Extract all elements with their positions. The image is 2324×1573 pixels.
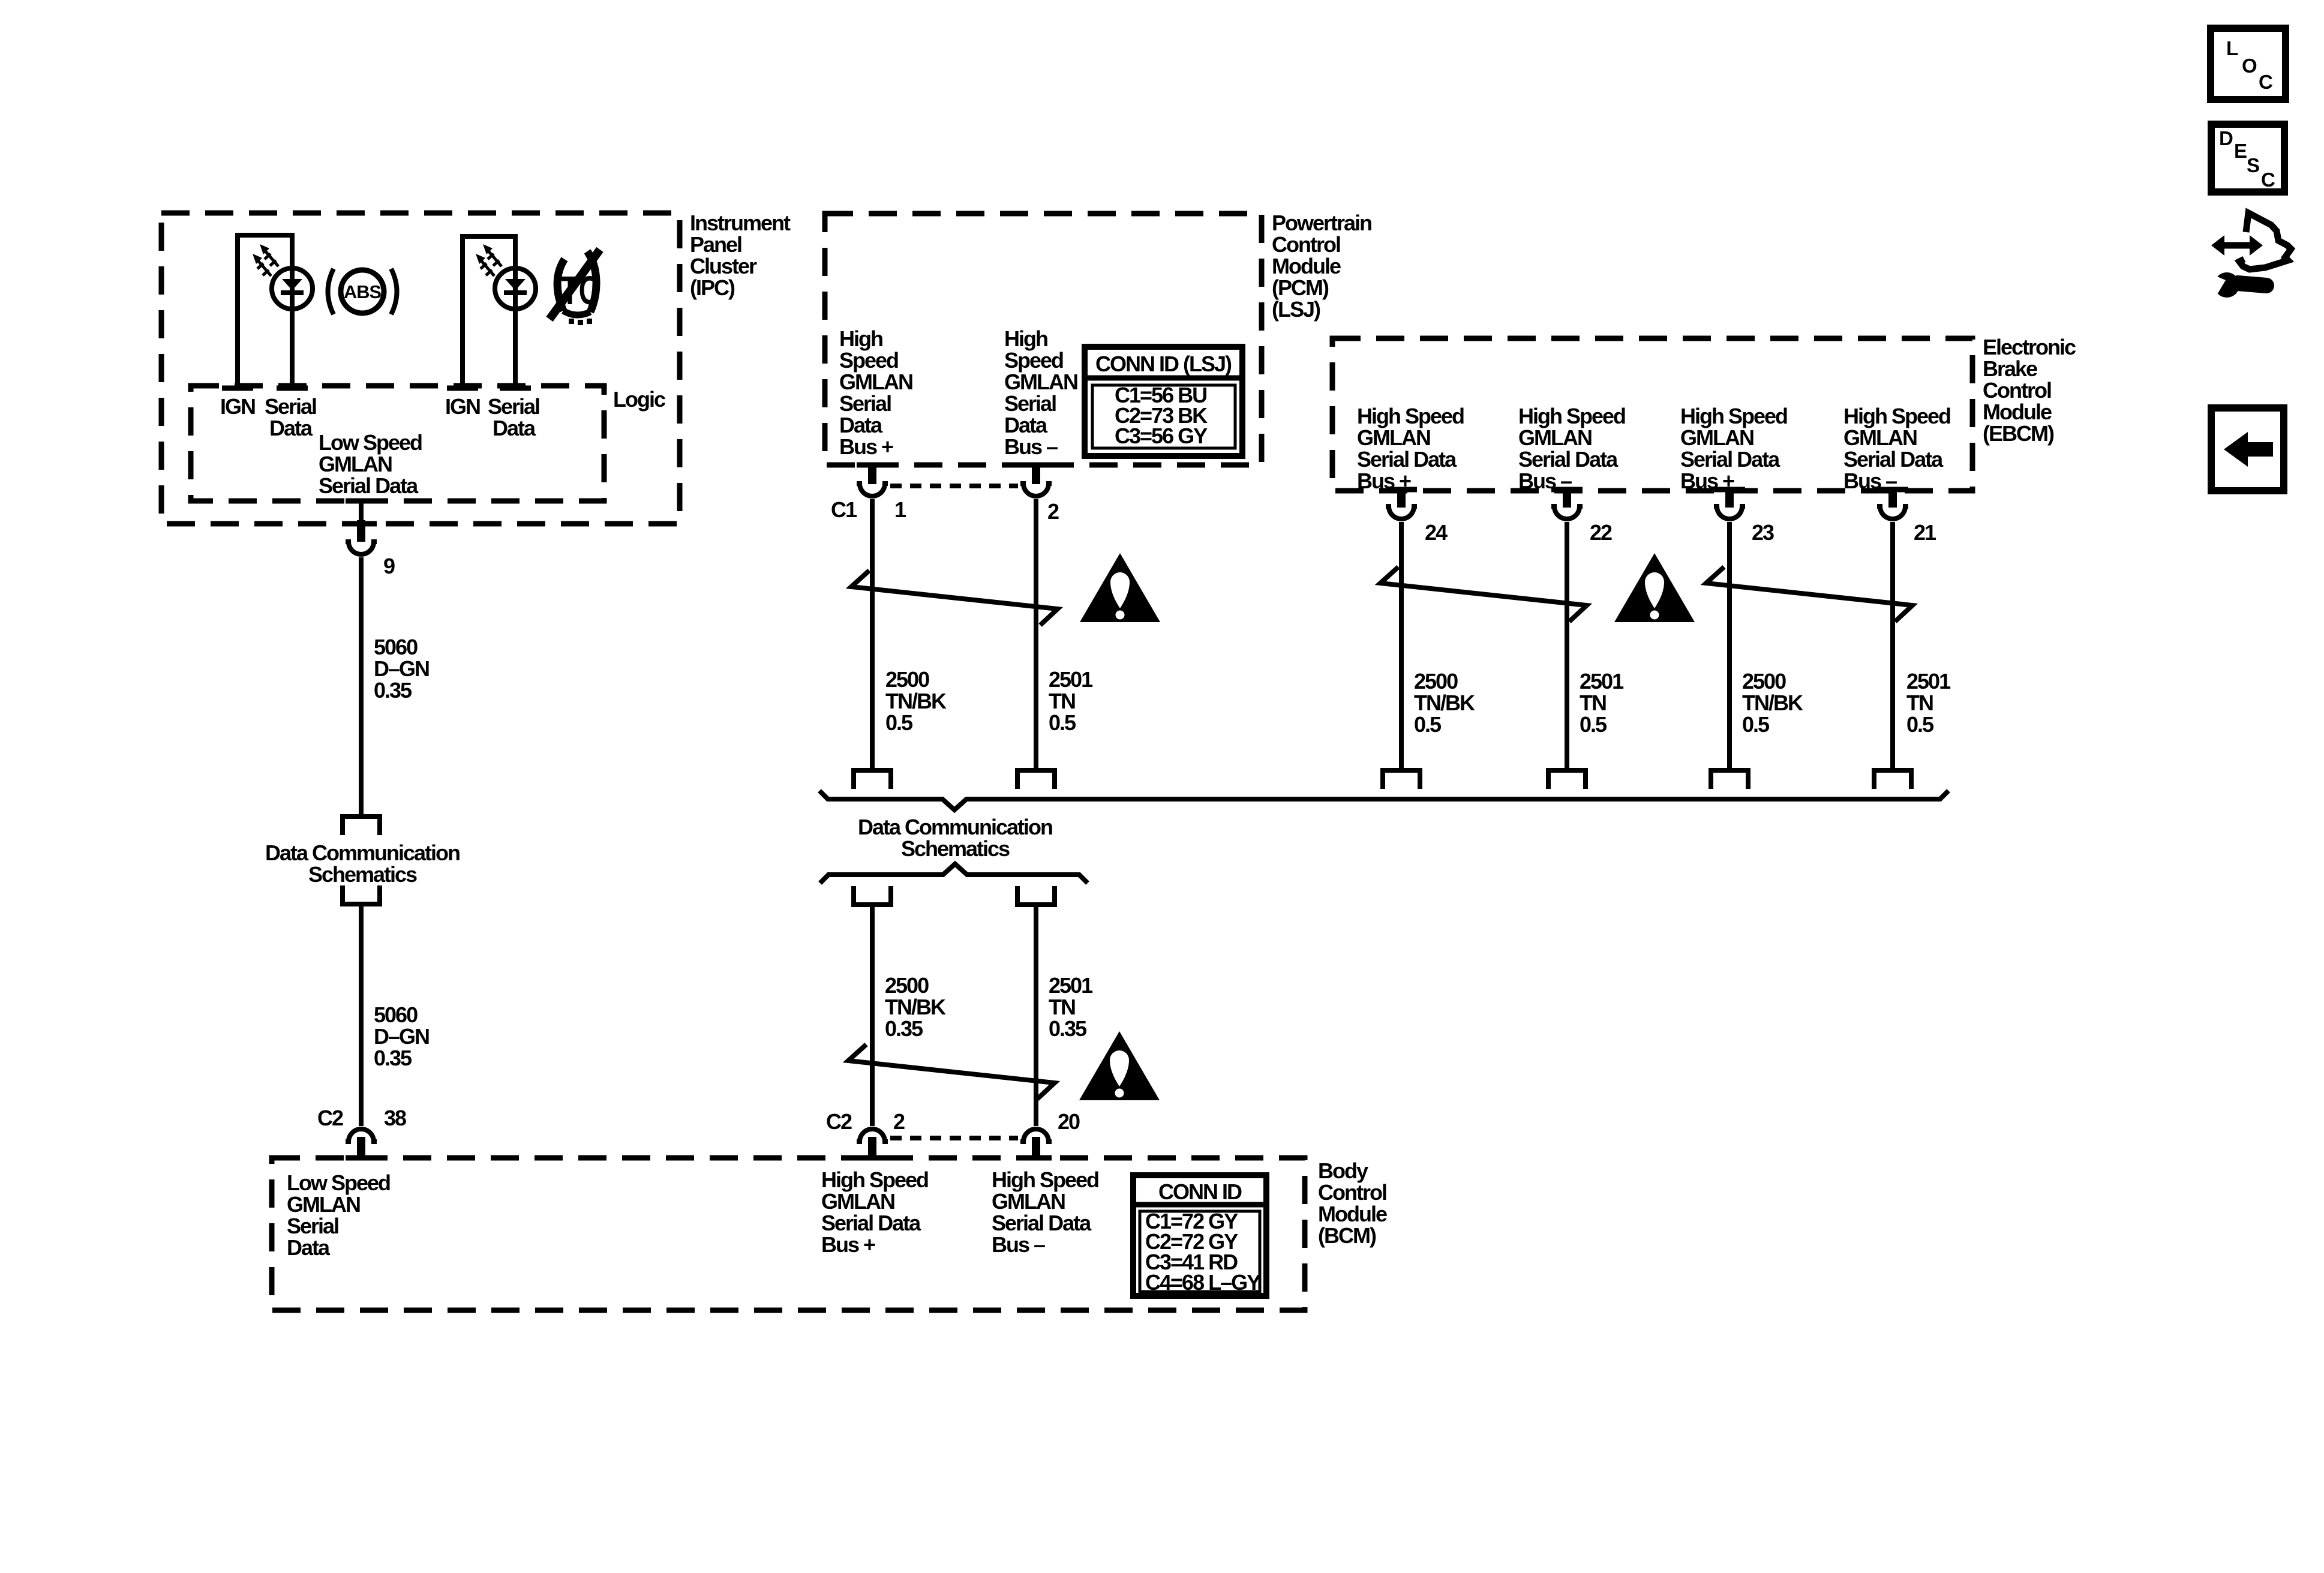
svg-text:5060: 5060 bbox=[374, 635, 418, 659]
svg-text:C: C bbox=[2259, 71, 2273, 93]
inline terminal lower (left chain) bbox=[343, 885, 380, 904]
svg-text:D–GN: D–GN bbox=[374, 1024, 429, 1049]
svg-text:CONN ID (LSJ): CONN ID (LSJ) bbox=[1095, 352, 1232, 376]
svg-text:Control: Control bbox=[1983, 378, 2051, 403]
svg-text:Brake: Brake bbox=[1983, 356, 2037, 381]
svg-text:Panel: Panel bbox=[690, 232, 741, 257]
label 2501 TN 0.5 (EBCM A) bbox=[1580, 669, 1624, 737]
svg-text:Powertrain: Powertrain bbox=[1272, 211, 1371, 235]
svg-text:Data Communication: Data Communication bbox=[265, 840, 460, 865]
svg-text:0.5: 0.5 bbox=[1049, 710, 1076, 735]
svg-text:0.35: 0.35 bbox=[374, 678, 412, 703]
icon LOC box bbox=[2211, 28, 2286, 100]
svg-text:High: High bbox=[839, 326, 882, 351]
svg-text:IGN: IGN bbox=[220, 394, 255, 419]
svg-text:Serial Data: Serial Data bbox=[1843, 447, 1944, 472]
label pin 23 bbox=[1752, 520, 1774, 545]
svg-text:38: 38 bbox=[384, 1106, 406, 1130]
svg-text:2500: 2500 bbox=[1742, 669, 1786, 694]
svg-text:S: S bbox=[2247, 154, 2260, 176]
svg-text:Serial Data: Serial Data bbox=[1518, 447, 1619, 472]
svg-text:Cluster: Cluster bbox=[690, 254, 757, 278]
svg-text:GMLAN: GMLAN bbox=[1357, 425, 1430, 450]
svg-text:Control: Control bbox=[1318, 1180, 1386, 1205]
svg-text:Serial: Serial bbox=[1004, 391, 1056, 416]
svg-text:Data: Data bbox=[493, 416, 536, 440]
label 5060 D-GN 0.35 upper bbox=[374, 635, 429, 703]
bus terminal (EBCM wire 23) bbox=[1711, 770, 1748, 789]
svg-text:High Speed: High Speed bbox=[1843, 404, 1950, 428]
svg-text:High Speed: High Speed bbox=[1518, 404, 1625, 428]
svg-text:TN: TN bbox=[1580, 691, 1606, 715]
twisted pair symbol (EBCM pair A) bbox=[1380, 567, 1587, 622]
wire splice to BCM C2-38 (5060 D-GN lower) bbox=[359, 904, 364, 1126]
BCM pin 20 connector dome bbox=[1020, 1129, 1052, 1142]
label High Speed GMLAN Serial Data Bus - (BCM) bbox=[992, 1167, 1098, 1257]
svg-text:0.35: 0.35 bbox=[1049, 1016, 1087, 1041]
svg-text:0.5: 0.5 bbox=[1906, 712, 1934, 737]
EBCM pin 23 connector cup bbox=[1714, 506, 1745, 519]
svg-text:High Speed: High Speed bbox=[821, 1167, 928, 1192]
bus terminal (PCM wire 1) bbox=[854, 770, 891, 789]
svg-text:GMLAN: GMLAN bbox=[1004, 370, 1077, 394]
bus terminal (EBCM wire 22) bbox=[1548, 770, 1586, 789]
label pin 1 bbox=[894, 497, 906, 522]
label High Speed GMLAN Serial Data Bus - (EBCM 2) bbox=[1518, 404, 1625, 493]
svg-text:(EBCM): (EBCM) bbox=[1983, 421, 2054, 446]
PCM pin C1-1 stub bbox=[868, 463, 876, 484]
svg-text:High Speed: High Speed bbox=[1680, 404, 1787, 428]
svg-text:(PCM): (PCM) bbox=[1272, 275, 1329, 300]
EBCM pin 21 stub bbox=[1888, 487, 1897, 508]
wire EBCM pin22 to bus (2501 TN 0.5) bbox=[1565, 522, 1569, 769]
module BCM box (Body Control Module) bbox=[272, 1158, 1305, 1310]
ABS indicator icon bbox=[328, 269, 397, 314]
label High Speed GMLAN Serial Data Bus + (EBCM 1) bbox=[1357, 404, 1464, 493]
svg-text:TN: TN bbox=[1049, 689, 1075, 713]
svg-text:High Speed: High Speed bbox=[1357, 404, 1464, 428]
wire IPC pin9 to splice (5060 D-GN upper) bbox=[359, 557, 364, 814]
svg-text:Data: Data bbox=[839, 413, 883, 437]
indicator lamp L1 ABS wire loop bbox=[238, 235, 292, 387]
PCM pin C1-1 connector cup bbox=[857, 484, 888, 496]
label C2 (BCM left) bbox=[317, 1106, 343, 1130]
svg-text:Module: Module bbox=[1983, 400, 2052, 424]
svg-text:5060: 5060 bbox=[374, 1002, 418, 1027]
long brace data bus bbox=[819, 791, 1948, 810]
label pin 2 bbox=[1047, 499, 1059, 524]
svg-text:C2: C2 bbox=[317, 1106, 343, 1130]
EBCM pin 22 connector cup bbox=[1551, 506, 1583, 519]
svg-text:2500: 2500 bbox=[1414, 669, 1458, 694]
svg-text:Low Speed: Low Speed bbox=[319, 430, 422, 455]
svg-text:TN/BK: TN/BK bbox=[885, 995, 946, 1019]
BCM pin 38 stub bbox=[357, 1137, 365, 1160]
LED symbol lamp L2 bbox=[495, 268, 536, 309]
TC off indicator icon bbox=[550, 250, 600, 325]
label 2501 TN 0.5 (EBCM B) bbox=[1906, 669, 1951, 737]
svg-text:(BCM): (BCM) bbox=[1318, 1223, 1376, 1248]
svg-text:Serial Data: Serial Data bbox=[1680, 447, 1780, 472]
svg-text:2500: 2500 bbox=[885, 667, 929, 692]
svg-text:2500: 2500 bbox=[885, 973, 929, 998]
svg-text:TN/BK: TN/BK bbox=[885, 689, 947, 713]
svg-text:High: High bbox=[1004, 326, 1047, 351]
svg-text:IGN: IGN bbox=[445, 394, 480, 419]
wire EBCM pin24 to bus (2500 TN/BK 0.5) bbox=[1399, 522, 1404, 769]
svg-text:Body: Body bbox=[1318, 1158, 1368, 1183]
label 2501 TN 0.35 bbox=[1049, 973, 1093, 1041]
lower terminal (BCM wire 1) bbox=[854, 886, 891, 905]
svg-text:GMLAN: GMLAN bbox=[839, 370, 912, 394]
label High Speed GMLAN Serial Data Bus - (PCM) bbox=[1004, 326, 1077, 459]
label IPC module name bbox=[690, 211, 791, 300]
CONN ID table (BCM) bbox=[1133, 1175, 1266, 1296]
svg-text:Module: Module bbox=[1318, 1202, 1387, 1226]
label pin 21 bbox=[1914, 520, 1936, 545]
svg-text:1: 1 bbox=[894, 497, 906, 522]
label High Speed GMLAN Serial Data Bus + (EBCM 3) bbox=[1680, 404, 1787, 493]
svg-text:Control: Control bbox=[1272, 232, 1340, 257]
BCM pin 2 stub bbox=[868, 1137, 876, 1160]
svg-text:Data: Data bbox=[287, 1235, 331, 1260]
wire PCM pin2 to bus (2501 TN 0.5) bbox=[1034, 499, 1038, 769]
BCM pin 20 stub bbox=[1032, 1137, 1040, 1160]
svg-text:Speed: Speed bbox=[1004, 348, 1063, 373]
inline terminal upper (left chain) bbox=[343, 816, 380, 835]
label IGN / Serial Data (lamp L2) bbox=[445, 394, 539, 440]
EBCM pin 21 connector cup bbox=[1877, 506, 1908, 519]
label 5060 D-GN 0.35 lower bbox=[374, 1002, 429, 1070]
module EBCM box (Electronic Brake Control Module) bbox=[1332, 338, 1972, 491]
label C2 (BCM middle) bbox=[826, 1109, 852, 1134]
svg-text:2501: 2501 bbox=[1049, 667, 1093, 692]
label Logic bbox=[613, 387, 665, 412]
svg-text:GMLAN: GMLAN bbox=[319, 452, 392, 476]
label BCM module name bbox=[1318, 1158, 1387, 1248]
label High Speed GMLAN Serial Data Bus + (BCM) bbox=[821, 1167, 928, 1257]
svg-text:0.5: 0.5 bbox=[885, 710, 913, 735]
svg-text:TN: TN bbox=[1906, 691, 1933, 715]
svg-text:Low Speed: Low Speed bbox=[287, 1170, 390, 1195]
svg-text:0.5: 0.5 bbox=[1742, 712, 1770, 737]
svg-text:Bus +: Bus + bbox=[821, 1232, 875, 1257]
bus terminal (EBCM wire 21) bbox=[1874, 770, 1911, 789]
PCM pin C1-2 stub bbox=[1032, 463, 1040, 484]
svg-text:TN/BK: TN/BK bbox=[1742, 691, 1803, 715]
icon DESC box bbox=[2211, 124, 2284, 192]
svg-text:2: 2 bbox=[893, 1109, 905, 1134]
label 2500 TN/BK 0.5 (EBCM B) bbox=[1742, 669, 1803, 737]
EBCM pin 23 stub bbox=[1725, 487, 1734, 508]
svg-text:Bus –: Bus – bbox=[992, 1232, 1045, 1257]
wire bus to BCM pin20 (2501 TN 0.35) bbox=[1034, 905, 1038, 1126]
label Low Speed GMLAN Serial Data (BCM) bbox=[287, 1170, 390, 1260]
svg-text:0.5: 0.5 bbox=[1580, 712, 1607, 737]
lamp L2 emission arrows bbox=[476, 244, 502, 276]
svg-text:24: 24 bbox=[1425, 520, 1448, 545]
svg-text:C4=68 L–GY: C4=68 L–GY bbox=[1145, 1270, 1261, 1295]
IPC pin 9 stub bbox=[357, 503, 365, 542]
svg-text:Data: Data bbox=[1004, 413, 1048, 437]
label Low Speed GMLAN Serial Data bbox=[319, 430, 422, 498]
svg-text:ABS: ABS bbox=[344, 281, 381, 302]
svg-text:O: O bbox=[2242, 55, 2257, 77]
svg-text:21: 21 bbox=[1914, 520, 1936, 545]
svg-text:Data Communication: Data Communication bbox=[858, 815, 1052, 839]
svg-text:Serial Data: Serial Data bbox=[821, 1211, 921, 1235]
logic box (Low Speed GMLAN Serial Data) bbox=[191, 386, 604, 501]
svg-text:2501: 2501 bbox=[1580, 669, 1624, 694]
icon vehicle data / service (arrow, car outline, wrench) bbox=[2204, 213, 2291, 298]
svg-text:TN: TN bbox=[1049, 995, 1075, 1019]
CONN ID (LSJ) table (PCM) bbox=[1085, 347, 1242, 456]
twisted pair symbol (BCM wires) bbox=[848, 1044, 1055, 1099]
BCM pin 38 connector dome bbox=[346, 1129, 377, 1142]
svg-text:20: 20 bbox=[1058, 1109, 1080, 1134]
svg-text:2501: 2501 bbox=[1906, 669, 1951, 694]
svg-text:GMLAN: GMLAN bbox=[1843, 425, 1917, 450]
svg-text:E: E bbox=[2234, 140, 2247, 162]
dash pads where lamp wires meet logic box bbox=[222, 386, 531, 391]
svg-text:Speed: Speed bbox=[839, 348, 898, 373]
EBCM pin 22 stub bbox=[1563, 487, 1571, 508]
svg-text:0.35: 0.35 bbox=[885, 1016, 923, 1041]
label pin 9 bbox=[383, 554, 395, 578]
svg-text:2: 2 bbox=[1047, 499, 1059, 524]
label 2500 TN/BK 0.5 (PCM) bbox=[885, 667, 947, 735]
label 2501 TN 0.5 (PCM) bbox=[1049, 667, 1093, 735]
warning triangle (EBCM note) bbox=[1614, 553, 1695, 622]
svg-text:Schematics: Schematics bbox=[308, 862, 417, 887]
svg-text:Serial Data: Serial Data bbox=[992, 1211, 1092, 1235]
label Data Communication Schematics (middle) bbox=[858, 815, 1052, 861]
LED symbol lamp L1 bbox=[272, 268, 313, 309]
svg-text:Serial: Serial bbox=[265, 394, 316, 419]
lower terminal (BCM wire 2) bbox=[1017, 886, 1055, 905]
svg-text:Bus +: Bus + bbox=[839, 434, 893, 459]
svg-text:GMLAN: GMLAN bbox=[821, 1189, 894, 1214]
label C1 bbox=[831, 497, 857, 522]
svg-text:0.35: 0.35 bbox=[374, 1046, 412, 1070]
warning triangle (BCM note) bbox=[1079, 1031, 1160, 1100]
label 2500 TN/BK 0.35 bbox=[885, 973, 946, 1041]
EBCM pin 24 connector cup bbox=[1386, 506, 1417, 519]
svg-text:Instrument: Instrument bbox=[690, 211, 791, 235]
mirror brace (to BCM pair) bbox=[820, 864, 1088, 883]
svg-text:C: C bbox=[2261, 169, 2275, 191]
label PCM module name bbox=[1272, 211, 1371, 322]
svg-text:(LSJ): (LSJ) bbox=[1272, 297, 1320, 322]
svg-text:(IPC): (IPC) bbox=[690, 275, 735, 300]
EBCM pin 24 stub bbox=[1397, 487, 1406, 508]
svg-text:GMLAN: GMLAN bbox=[1680, 425, 1753, 450]
label IGN / Serial Data (lamp L1) bbox=[220, 394, 316, 440]
svg-text:GMLAN: GMLAN bbox=[1518, 425, 1592, 450]
label 2500 TN/BK 0.5 (EBCM A) bbox=[1414, 669, 1475, 737]
warning triangle (PCM note) bbox=[1080, 553, 1160, 622]
svg-text:D–GN: D–GN bbox=[374, 656, 429, 681]
indicator lamp L2 TC wire loop bbox=[463, 236, 515, 387]
svg-text:Serial Data: Serial Data bbox=[319, 473, 419, 498]
svg-text:Serial Data: Serial Data bbox=[1357, 447, 1457, 472]
svg-text:Module: Module bbox=[1272, 254, 1341, 278]
svg-text:D: D bbox=[2219, 127, 2233, 149]
label pin 24 bbox=[1425, 520, 1448, 545]
twisted pair symbol (PCM wires) bbox=[851, 571, 1058, 625]
label EBCM module name bbox=[1983, 335, 2076, 446]
label Data Communication Schematics (left) bbox=[265, 840, 460, 887]
svg-text:GMLAN: GMLAN bbox=[992, 1189, 1065, 1214]
lamp L1 emission arrows bbox=[253, 244, 278, 276]
label pin 38 bbox=[384, 1106, 406, 1130]
svg-text:Serial: Serial bbox=[488, 394, 539, 419]
label pin 22 bbox=[1590, 520, 1612, 545]
svg-text:C2: C2 bbox=[826, 1109, 852, 1134]
label pin 20 (BCM) bbox=[1058, 1109, 1080, 1134]
module IPC box (Instrument Panel Cluster) bbox=[161, 213, 680, 524]
svg-text:CONN ID: CONN ID bbox=[1158, 1179, 1242, 1204]
PCM pin C1-2 connector cup bbox=[1020, 484, 1052, 496]
svg-text:C1: C1 bbox=[831, 497, 857, 522]
svg-text:Serial: Serial bbox=[287, 1214, 338, 1238]
svg-text:Electronic: Electronic bbox=[1983, 335, 2076, 359]
svg-text:GMLAN: GMLAN bbox=[287, 1192, 360, 1217]
svg-text:L: L bbox=[2226, 37, 2238, 59]
label pin 2 (BCM) bbox=[893, 1109, 905, 1134]
dashed connector link C1 bbox=[890, 484, 1018, 488]
bus terminal (EBCM wire 24) bbox=[1383, 770, 1420, 789]
svg-text:23: 23 bbox=[1752, 520, 1774, 545]
svg-text:Schematics: Schematics bbox=[901, 836, 1010, 861]
svg-text:Logic: Logic bbox=[613, 387, 665, 412]
svg-text:High Speed: High Speed bbox=[992, 1167, 1098, 1192]
svg-text:Bus –: Bus – bbox=[1004, 434, 1058, 459]
svg-text:0.5: 0.5 bbox=[1414, 712, 1442, 737]
bus terminal (PCM wire 2) bbox=[1017, 770, 1055, 789]
svg-text:2501: 2501 bbox=[1049, 973, 1093, 998]
IPC pin 9 connector cup bbox=[346, 542, 377, 554]
wire PCM pin1 to bus (2500 TN/BK 0.5) bbox=[870, 499, 875, 769]
label High Speed GMLAN Serial Data Bus - (EBCM 4) bbox=[1843, 404, 1950, 493]
svg-text:Serial: Serial bbox=[839, 391, 891, 416]
dash pads at border crossings bbox=[346, 465, 1908, 1158]
svg-text:9: 9 bbox=[383, 554, 395, 578]
label High Speed GMLAN Serial Data Bus + (PCM) bbox=[839, 326, 912, 459]
icon back arrow box bbox=[2211, 408, 2284, 491]
svg-text:TN/BK: TN/BK bbox=[1414, 691, 1475, 715]
twisted pair symbol (EBCM pair B) bbox=[1706, 567, 1912, 622]
BCM pin 2 connector dome bbox=[857, 1129, 888, 1142]
svg-text:C3=56 GY: C3=56 GY bbox=[1115, 424, 1208, 448]
wire EBCM pin21 to bus (2501 TN 0.5) bbox=[1890, 522, 1895, 769]
module PCM box (Powertrain Control Module) bbox=[825, 214, 1262, 465]
svg-text:Data: Data bbox=[269, 416, 313, 440]
svg-text:22: 22 bbox=[1590, 520, 1612, 545]
wire EBCM pin23 to bus (2500 TN/BK 0.5) bbox=[1727, 522, 1732, 769]
wire bus to BCM pin2 (2500 TN/BK 0.35) bbox=[870, 905, 875, 1126]
dashed connector link C2 bbox=[890, 1136, 1018, 1140]
